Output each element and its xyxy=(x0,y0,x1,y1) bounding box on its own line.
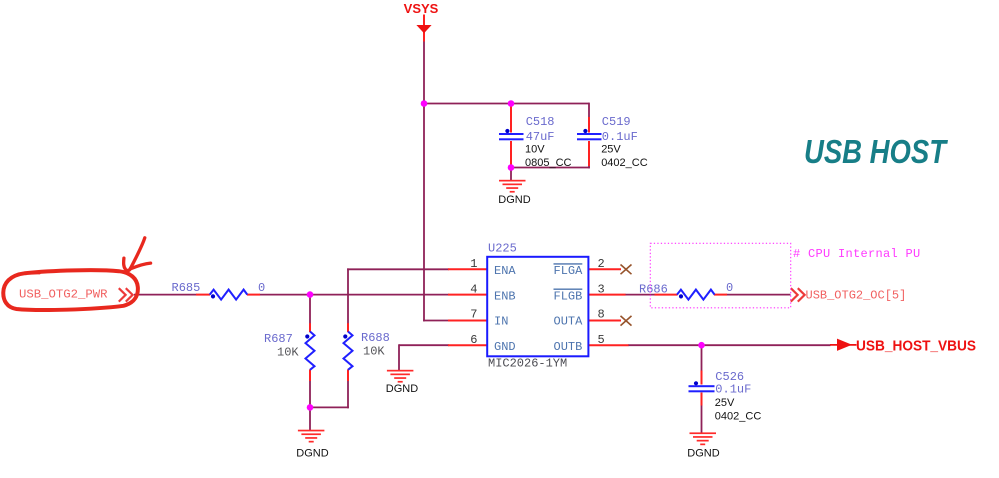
svg-text:ENA: ENA xyxy=(494,264,516,278)
svg-text:DGND: DGND xyxy=(687,448,719,460)
svg-text:0805_CC: 0805_CC xyxy=(525,157,572,169)
svg-text:U225: U225 xyxy=(488,242,517,256)
svg-text:25V: 25V xyxy=(601,144,621,156)
svg-text:25V: 25V xyxy=(715,397,735,409)
svg-text:FLGB: FLGB xyxy=(554,289,583,303)
svg-text:10V: 10V xyxy=(525,144,545,156)
svg-text:VSYS: VSYS xyxy=(404,1,439,16)
svg-text:6: 6 xyxy=(470,333,477,347)
svg-text:0: 0 xyxy=(258,281,265,295)
svg-text:FLGA: FLGA xyxy=(554,264,584,278)
svg-text:8: 8 xyxy=(598,308,605,322)
svg-text:10K: 10K xyxy=(277,346,299,360)
svg-text:DGND: DGND xyxy=(296,448,328,460)
svg-text:1: 1 xyxy=(470,257,477,271)
svg-text:4: 4 xyxy=(470,282,477,296)
svg-text:47uF: 47uF xyxy=(526,130,555,144)
svg-text:R685: R685 xyxy=(172,281,201,295)
svg-text:OUTB: OUTB xyxy=(554,340,583,354)
svg-text:USB_OTG2_OC[5]: USB_OTG2_OC[5] xyxy=(806,289,907,303)
svg-text:0.1uF: 0.1uF xyxy=(715,383,751,397)
svg-text:0: 0 xyxy=(726,281,733,295)
svg-text:DGND: DGND xyxy=(498,194,530,206)
svg-text:10K: 10K xyxy=(363,345,385,359)
svg-text:ENB: ENB xyxy=(494,289,516,303)
svg-text:R687: R687 xyxy=(264,332,293,346)
svg-text:0402_CC: 0402_CC xyxy=(601,157,648,169)
svg-text:R688: R688 xyxy=(361,331,390,345)
svg-text:# CPU Internal PU: # CPU Internal PU xyxy=(793,247,921,261)
svg-text:5: 5 xyxy=(598,333,605,347)
svg-text:2: 2 xyxy=(598,257,605,271)
svg-text:0402_CC: 0402_CC xyxy=(715,411,762,423)
svg-text:USB_HOST_VBUS: USB_HOST_VBUS xyxy=(856,337,976,354)
svg-text:0.1uF: 0.1uF xyxy=(602,130,638,144)
svg-text:GND: GND xyxy=(494,340,516,354)
svg-text:C519: C519 xyxy=(602,115,631,129)
svg-text:DGND: DGND xyxy=(386,383,418,395)
svg-text:3: 3 xyxy=(598,282,605,296)
svg-text:MIC2026-1YM: MIC2026-1YM xyxy=(488,357,567,371)
svg-text:R686: R686 xyxy=(639,283,668,297)
svg-text:C518: C518 xyxy=(526,115,555,129)
svg-text:USB HOST: USB HOST xyxy=(804,133,948,170)
svg-text:IN: IN xyxy=(494,315,508,329)
svg-text:7: 7 xyxy=(470,308,477,322)
svg-text:USB_OTG2_PWR: USB_OTG2_PWR xyxy=(19,288,108,302)
svg-text:OUTA: OUTA xyxy=(554,315,584,329)
